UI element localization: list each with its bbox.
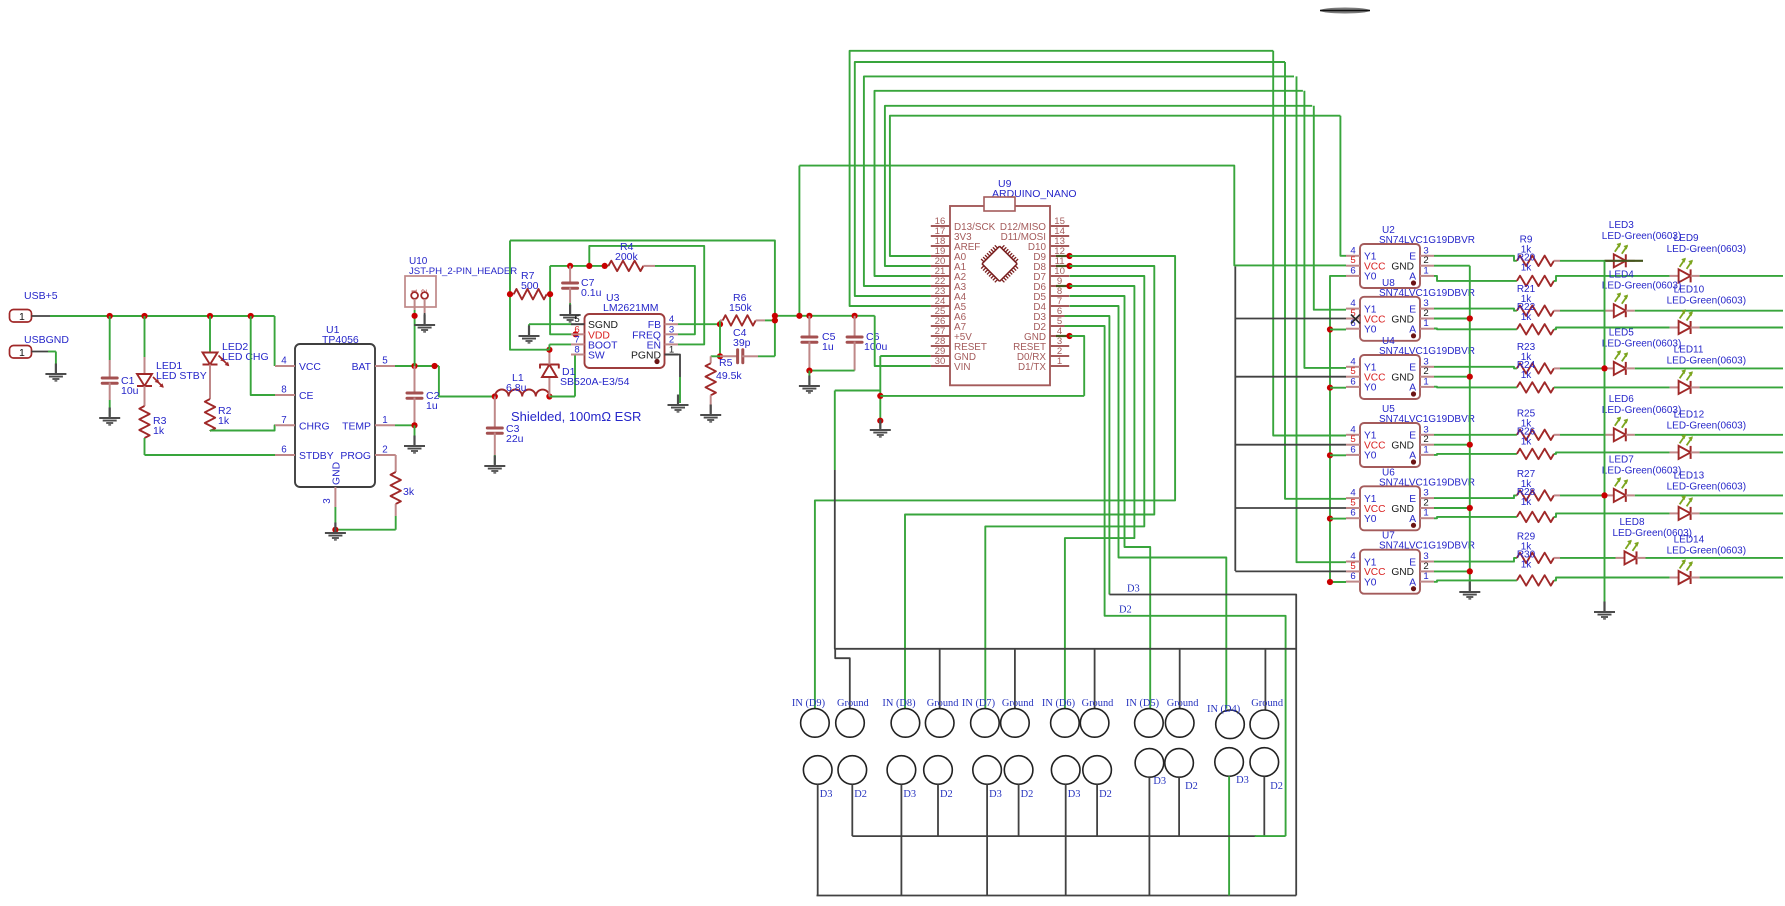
svg-text:IN (D4): IN (D4) bbox=[1207, 704, 1240, 715]
svg-text:7: 7 bbox=[281, 415, 286, 426]
wire black VCC branch y508 bbox=[1235, 507, 1346, 509]
connector IN (D8) pad bbox=[882, 698, 919, 737]
svg-text:3: 3 bbox=[322, 498, 333, 504]
svg-text:150k: 150k bbox=[729, 302, 753, 314]
decorative gray lens marker bbox=[1320, 8, 1370, 14]
wire BOOT pin bbox=[549, 344, 571, 349]
wire bus A0/D9 bbox=[890, 116, 1341, 256]
ground arduino GND bbox=[870, 420, 891, 438]
connector IN (D5) pad bbox=[1126, 698, 1163, 737]
wire LED rail bbox=[1601, 261, 1607, 609]
wire D2 bottom bus bbox=[852, 776, 1285, 836]
resistor R21 bbox=[1434, 284, 1605, 316]
wire PROG-3k to ground bbox=[332, 527, 395, 533]
svg-text:LED8: LED8 bbox=[1620, 517, 1645, 528]
svg-text:100u: 100u bbox=[864, 341, 888, 353]
svg-text:1: 1 bbox=[19, 347, 25, 359]
led LED6 LED-Green(0603) bbox=[1602, 394, 1783, 442]
wire bus A3/D6 bbox=[864, 76, 1294, 286]
wire net D9 bbox=[815, 253, 1175, 709]
connector D2 pad group 3 bbox=[1004, 756, 1033, 800]
svg-text:8: 8 bbox=[574, 345, 579, 356]
svg-text:500: 500 bbox=[521, 280, 539, 292]
wire ground stub right bbox=[1264, 649, 1266, 711]
led LED10 LED-Green(0603) bbox=[1667, 285, 1783, 335]
svg-text:Y0: Y0 bbox=[1364, 383, 1377, 394]
wire bus A2/D7 bbox=[875, 91, 1303, 276]
ic U3 LM2621MM bbox=[571, 292, 678, 368]
wire black VCC branch y571.4 bbox=[1235, 570, 1346, 572]
wire R3 to STDBY bbox=[145, 438, 276, 455]
wire VIN net bbox=[875, 316, 931, 366]
capacitor C4 bbox=[717, 327, 775, 363]
led LED7 LED-Green(0603) bbox=[1602, 454, 1783, 502]
wire TEMP net bbox=[395, 422, 418, 444]
node junction L1 left bbox=[492, 393, 498, 399]
svg-text:IN (D6): IN (D6) bbox=[1042, 698, 1075, 709]
resistor R27 bbox=[1434, 469, 1605, 501]
svg-text:D2: D2 bbox=[854, 789, 867, 800]
svg-text:4: 4 bbox=[281, 356, 287, 367]
svg-text:1k: 1k bbox=[1521, 559, 1533, 570]
svg-text:1: 1 bbox=[1423, 376, 1428, 387]
resistor R5 bbox=[706, 356, 743, 413]
node junction VDD pin bbox=[573, 331, 579, 337]
node junction LED2 bbox=[207, 313, 213, 319]
wire Y0 rail bbox=[1327, 276, 1346, 585]
svg-text:1: 1 bbox=[1423, 265, 1428, 276]
led LED14 LED-Green(0603) bbox=[1667, 535, 1783, 585]
svg-text:1k: 1k bbox=[1521, 497, 1533, 508]
connector D3 pad group 1 bbox=[803, 756, 832, 800]
wire net D3 bbox=[1065, 316, 1297, 896]
wire +5V distribution bbox=[799, 166, 1346, 266]
svg-text:IN (D8): IN (D8) bbox=[882, 698, 915, 709]
connector Ground pad group 5 bbox=[1165, 698, 1199, 737]
ground C1 bbox=[99, 408, 120, 426]
wire SGND net bbox=[529, 324, 571, 334]
ground LED rail bbox=[1594, 602, 1615, 620]
resistor R9 bbox=[1434, 234, 1605, 266]
svg-text:LED6: LED6 bbox=[1609, 394, 1634, 405]
svg-text:2: 2 bbox=[422, 289, 429, 293]
ground C7 bbox=[560, 305, 581, 323]
svg-text:6.8u: 6.8u bbox=[506, 382, 527, 394]
wire U7 GND to rail bbox=[1434, 568, 1473, 574]
connector D2 pad group 5 bbox=[1165, 749, 1198, 792]
svg-text:LED-Green(0603): LED-Green(0603) bbox=[1667, 420, 1746, 431]
wire VDD riser bbox=[550, 266, 576, 334]
wire GND branch left bbox=[835, 390, 881, 392]
svg-text:1: 1 bbox=[19, 311, 25, 323]
svg-text:USB+5: USB+5 bbox=[24, 290, 58, 302]
svg-text:3k: 3k bbox=[403, 486, 415, 498]
wire +5V riser bbox=[796, 166, 802, 319]
capacitor C1 bbox=[102, 316, 138, 416]
connector Ground pad group 2 bbox=[925, 698, 959, 737]
svg-text:1: 1 bbox=[1423, 571, 1428, 582]
wire U1 GND pin3 bbox=[334, 507, 336, 530]
wire U8 GND to rail bbox=[1434, 315, 1473, 321]
svg-text:1: 1 bbox=[1423, 318, 1428, 329]
wire U5 GND to rail bbox=[1434, 442, 1473, 448]
svg-text:D2: D2 bbox=[940, 789, 953, 800]
svg-text:LED5: LED5 bbox=[1609, 327, 1634, 338]
svg-text:BAT: BAT bbox=[352, 362, 372, 373]
wire U6 GND to rail bbox=[1434, 505, 1473, 511]
capacitor C2 bbox=[407, 366, 440, 425]
svg-text:2: 2 bbox=[382, 445, 387, 456]
svg-text:D3: D3 bbox=[1153, 776, 1166, 787]
connector IN (D9) pad bbox=[792, 698, 829, 737]
wire net D8 bbox=[905, 263, 1154, 709]
svg-text:IN (D5): IN (D5) bbox=[1126, 698, 1159, 709]
svg-text:Y0: Y0 bbox=[1364, 272, 1377, 283]
svg-text:CHRG: CHRG bbox=[299, 421, 330, 432]
wire L1 to SW bbox=[549, 355, 575, 397]
svg-text:LED CHG: LED CHG bbox=[222, 351, 269, 363]
svg-text:D3: D3 bbox=[820, 789, 833, 800]
svg-text:Ground: Ground bbox=[837, 698, 870, 709]
wire U4.Y0 tap bbox=[1327, 385, 1346, 391]
resistor R22 bbox=[1434, 302, 1670, 334]
ic U5 SN74LVC1G19DBVR bbox=[1346, 404, 1475, 467]
wire output node line bbox=[772, 313, 875, 319]
connector Ground pad group 3 bbox=[1001, 698, 1035, 737]
wire U4 GND to rail bbox=[1434, 374, 1473, 380]
svg-text:8: 8 bbox=[281, 385, 287, 396]
svg-text:LED12: LED12 bbox=[1674, 409, 1705, 420]
node junction CE bbox=[248, 313, 254, 319]
svg-text:SB520A-E3/54: SB520A-E3/54 bbox=[560, 376, 630, 388]
ground C2 bbox=[404, 436, 425, 454]
connector Ground pad group 6 bbox=[1250, 698, 1284, 739]
wire net to U5.Y1 bbox=[1273, 51, 1346, 436]
led LED3 LED-Green(0603) bbox=[1602, 220, 1681, 267]
svg-text:1: 1 bbox=[382, 415, 387, 426]
svg-text:LED-Green(0603): LED-Green(0603) bbox=[1667, 481, 1746, 492]
diode D1 SB520A-E3/54 bbox=[540, 350, 630, 397]
svg-text:D2: D2 bbox=[1119, 605, 1132, 616]
connector D2 pad group 6 bbox=[1250, 748, 1283, 792]
node junction L1 right bbox=[546, 393, 552, 399]
led LED9 LED-Green(0603) bbox=[1667, 233, 1783, 283]
svg-text:LED4: LED4 bbox=[1609, 270, 1634, 281]
wire chips GND rail bbox=[1469, 266, 1471, 590]
svg-text:TP4056: TP4056 bbox=[322, 334, 359, 346]
wire net D2 bbox=[1065, 326, 1286, 836]
svg-text:USBGND: USBGND bbox=[24, 334, 69, 346]
svg-text:LED10: LED10 bbox=[1674, 285, 1705, 296]
ic U8 SN74LVC1G19DBVR bbox=[1346, 278, 1475, 341]
svg-text:Y0: Y0 bbox=[1364, 451, 1377, 462]
led LED12 LED-Green(0603) bbox=[1667, 409, 1783, 459]
svg-text:GND: GND bbox=[332, 462, 343, 485]
connector IN (D7) pad bbox=[962, 698, 999, 737]
capacitor C7 bbox=[563, 266, 602, 313]
led LED13 LED-Green(0603) bbox=[1667, 470, 1783, 520]
svg-text:0.1u: 0.1u bbox=[581, 287, 602, 299]
svg-text:VIN: VIN bbox=[954, 362, 970, 373]
wire R4 to FREQ bbox=[655, 266, 695, 334]
wire GND bus bbox=[835, 391, 1296, 709]
capacitor C5 bbox=[802, 313, 836, 371]
ground U10 bbox=[414, 315, 435, 333]
resistor R20 bbox=[1434, 252, 1670, 286]
svg-text:22u: 22u bbox=[506, 433, 524, 445]
text shielded note bbox=[511, 409, 641, 424]
capacitor C6 bbox=[847, 313, 887, 371]
svg-text:LM2621MM: LM2621MM bbox=[603, 302, 658, 314]
svg-text:D2: D2 bbox=[1099, 789, 1112, 800]
wire output top line A bbox=[510, 241, 775, 357]
ground C5 bbox=[799, 376, 820, 394]
svg-text:1k: 1k bbox=[1521, 262, 1533, 273]
resistor R26 bbox=[1434, 426, 1670, 459]
svg-text:LED-Green(0603): LED-Green(0603) bbox=[1602, 338, 1681, 349]
svg-text:1: 1 bbox=[669, 345, 674, 356]
svg-text:6: 6 bbox=[1350, 444, 1355, 455]
svg-text:6: 6 bbox=[1350, 376, 1355, 387]
svg-text:D3: D3 bbox=[903, 789, 916, 800]
svg-text:6: 6 bbox=[1350, 265, 1355, 276]
resistor R25 bbox=[1434, 408, 1605, 440]
node junction GND-a bbox=[877, 393, 883, 399]
wire net D5 bbox=[1070, 296, 1151, 709]
svg-text:D2: D2 bbox=[1185, 781, 1198, 792]
svg-text:1k: 1k bbox=[153, 425, 165, 437]
resistor R24 bbox=[1434, 360, 1670, 393]
node junction GND-b bbox=[877, 418, 883, 424]
svg-text:Ground: Ground bbox=[1167, 698, 1200, 709]
wire ground stub x1014.9 bbox=[1014, 649, 1016, 709]
node junction BAT-C2 bbox=[411, 363, 417, 369]
wire net to U6.Y1 bbox=[1285, 62, 1346, 499]
svg-text:6: 6 bbox=[1350, 571, 1355, 582]
wire USB+5 rail bbox=[50, 316, 275, 366]
wire EN loop bbox=[589, 246, 704, 345]
svg-text:TEMP: TEMP bbox=[342, 421, 371, 432]
svg-text:1u: 1u bbox=[822, 341, 834, 353]
ic U9 ARDUINO_NANO bbox=[931, 178, 1077, 385]
svg-text:LED13: LED13 bbox=[1674, 470, 1705, 481]
connector Ground pad group 1 bbox=[836, 698, 870, 737]
wire net D7 bbox=[985, 276, 1144, 709]
svg-text:D3: D3 bbox=[989, 789, 1002, 800]
svg-text:STDBY: STDBY bbox=[299, 451, 334, 462]
svg-text:6: 6 bbox=[281, 445, 287, 456]
svg-text:10u: 10u bbox=[121, 385, 139, 397]
wire D3 bottom bus bbox=[817, 777, 1297, 895]
connector D3 pad group 4 bbox=[1051, 756, 1080, 800]
wire net to U4.Y1 bbox=[1304, 91, 1346, 368]
svg-text:CE: CE bbox=[299, 391, 314, 402]
connector IN (D4) pad bbox=[1207, 704, 1244, 739]
wire BAT net bbox=[395, 366, 495, 397]
svg-text:LED11: LED11 bbox=[1674, 344, 1704, 355]
ic U7 SN74LVC1G19DBVR bbox=[1346, 531, 1475, 594]
wire ground stub x939.7 bbox=[939, 649, 941, 709]
wire VDD top line bbox=[550, 265, 608, 267]
svg-text:IN (D7): IN (D7) bbox=[962, 698, 995, 709]
connector D3 pad group 2 bbox=[887, 756, 916, 800]
resistor R7 bbox=[507, 270, 553, 299]
svg-text:D2: D2 bbox=[1270, 781, 1283, 792]
wire net to U2.Y1 bbox=[1340, 116, 1346, 256]
ground PGND bbox=[668, 395, 689, 413]
svg-text:LED STBY: LED STBY bbox=[156, 370, 207, 382]
wire black VCC branch y444.7 bbox=[1235, 444, 1346, 446]
led LED1 bbox=[137, 316, 207, 388]
ground chips rail bbox=[1459, 582, 1480, 600]
node junction R4 left bbox=[602, 263, 608, 269]
wire ground stub x1179.7 bbox=[1179, 649, 1181, 709]
resistor R4 bbox=[608, 241, 655, 271]
svg-text:1k: 1k bbox=[1521, 436, 1533, 447]
svg-text:D3: D3 bbox=[1236, 775, 1249, 786]
wire U5.Y0 tap bbox=[1327, 452, 1346, 458]
svg-text:Ground: Ground bbox=[1002, 698, 1035, 709]
connector D3 pad group 6 bbox=[1215, 748, 1249, 786]
connector D2 pad group 2 bbox=[924, 756, 953, 800]
svg-text:LED-Green(0603): LED-Green(0603) bbox=[1602, 405, 1681, 416]
node USB+5 label bbox=[24, 290, 58, 302]
wire bus A1/D8 bbox=[885, 106, 1312, 266]
resistor 3k bbox=[391, 455, 415, 530]
svg-text:LED-Green(0603): LED-Green(0603) bbox=[1667, 296, 1746, 307]
svg-text:39p: 39p bbox=[733, 337, 751, 349]
svg-text:D3: D3 bbox=[1068, 789, 1081, 800]
svg-text:LED3: LED3 bbox=[1609, 220, 1634, 231]
svg-text:1: 1 bbox=[412, 289, 419, 293]
svg-text:LED9: LED9 bbox=[1674, 233, 1699, 244]
led LED4 LED-Green(0603) bbox=[1602, 270, 1783, 318]
connector IN (D6) pad bbox=[1042, 698, 1079, 737]
wire ground stub x1094.6 bbox=[1094, 649, 1096, 709]
wire bus A4/D5 bbox=[855, 62, 1285, 296]
wire D3 green riser bbox=[1228, 776, 1230, 895]
svg-text:D1/TX: D1/TX bbox=[1018, 362, 1046, 373]
wire U6.Y0 tap bbox=[1327, 516, 1346, 522]
wire U8.Y0 tap bbox=[1327, 326, 1346, 332]
svg-text:Ground: Ground bbox=[1251, 698, 1284, 709]
node junction EN-VDD bbox=[586, 263, 592, 269]
wire JST pin2 to ground bbox=[424, 313, 426, 323]
svg-text:D3: D3 bbox=[1127, 584, 1140, 595]
led LED2 bbox=[203, 316, 269, 366]
svg-text:49.5k: 49.5k bbox=[716, 370, 742, 382]
resistor R29 bbox=[1434, 531, 1616, 563]
resistor R30 bbox=[1434, 549, 1670, 585]
connector USBGND pin 1 bbox=[10, 346, 49, 360]
wire GND from D-GND pin bbox=[880, 395, 1084, 397]
svg-text:1u: 1u bbox=[426, 400, 438, 412]
svg-text:LED-Green(0603): LED-Green(0603) bbox=[1667, 355, 1746, 366]
ic U2 SN74LVC1G19DBVR bbox=[1346, 225, 1475, 288]
svg-text:Ground: Ground bbox=[927, 698, 960, 709]
resistor R3 bbox=[139, 386, 166, 438]
wire GND29 net bbox=[880, 356, 931, 428]
ground R5 bbox=[700, 405, 721, 423]
wire CE net bbox=[251, 316, 275, 395]
svg-text:IN (D9): IN (D9) bbox=[792, 698, 825, 709]
connector D2 pad group 4 bbox=[1083, 756, 1112, 800]
wire black rail bbox=[1234, 267, 1236, 572]
wire BOOT loop bbox=[510, 241, 549, 350]
wire C5-C6 bottom bbox=[806, 368, 854, 385]
svg-text:1k: 1k bbox=[1521, 312, 1533, 323]
wire net D6 bbox=[1056, 283, 1134, 709]
wire R2 to CHRG bbox=[210, 425, 275, 431]
wire net to U7.Y1 bbox=[1297, 76, 1347, 562]
capacitor C3 bbox=[487, 397, 523, 465]
svg-text:D2: D2 bbox=[1021, 789, 1034, 800]
svg-text:1k: 1k bbox=[218, 415, 230, 427]
led LED8 LED-Green(0603) bbox=[1613, 517, 1784, 565]
svg-text:1: 1 bbox=[1423, 444, 1428, 455]
ic U4 SN74LVC1G19DBVR bbox=[1346, 336, 1475, 399]
resistor R23 bbox=[1434, 342, 1605, 374]
svg-text:VCC: VCC bbox=[299, 362, 321, 373]
svg-text:5: 5 bbox=[382, 356, 388, 367]
wire arduino GND pin bbox=[1056, 333, 1084, 396]
wire bus A5/D4 bbox=[850, 51, 1274, 306]
svg-text:Y0: Y0 bbox=[1364, 325, 1377, 336]
resistor R6 bbox=[720, 292, 778, 326]
ground C3 bbox=[484, 456, 505, 474]
led LED11 LED-Green(0603) bbox=[1667, 344, 1783, 394]
svg-text:200k: 200k bbox=[615, 251, 639, 263]
wire U2 GND to rail bbox=[1434, 265, 1470, 267]
wire PGND to ground bbox=[678, 355, 680, 404]
svg-text:30: 30 bbox=[935, 356, 946, 367]
svg-text:LED-Green(0603): LED-Green(0603) bbox=[1602, 231, 1681, 242]
svg-text:Shielded, 100mΩ ESR: Shielded, 100mΩ ESR bbox=[511, 409, 641, 424]
svg-text:1: 1 bbox=[1423, 508, 1428, 519]
node junction LED1 bbox=[141, 313, 147, 319]
wire net to U8.Y1 bbox=[1314, 106, 1346, 310]
wire black VCC branch y318.5 bbox=[1235, 318, 1346, 320]
ground U1 bbox=[325, 523, 346, 541]
ic U6 SN74LVC1G19DBVR bbox=[1346, 467, 1475, 530]
node junction C1 bbox=[107, 313, 113, 319]
svg-text:LED-Green(0603): LED-Green(0603) bbox=[1667, 546, 1746, 557]
wire net D4 bbox=[1070, 306, 1227, 709]
inductor L1 bbox=[495, 372, 549, 397]
wire black VCC branch y376.7 bbox=[1235, 376, 1346, 378]
svg-text:Y0: Y0 bbox=[1364, 514, 1377, 525]
svg-text:1: 1 bbox=[1057, 356, 1062, 367]
svg-text:Ground: Ground bbox=[1082, 698, 1115, 709]
wire USBGND to ground bbox=[48, 352, 56, 373]
node junction BAT-turn bbox=[432, 363, 438, 369]
svg-text:R5: R5 bbox=[719, 357, 733, 369]
node no-connect marker U8 VCC bbox=[1351, 315, 1360, 324]
led LED5 LED-Green(0603) bbox=[1602, 327, 1783, 375]
ground SGND bbox=[519, 326, 540, 344]
svg-text:Y0: Y0 bbox=[1364, 577, 1377, 588]
svg-text:1k: 1k bbox=[1521, 370, 1533, 381]
connector D3 pad group 3 bbox=[973, 756, 1002, 800]
connector Ground pad group 4 bbox=[1080, 698, 1114, 737]
svg-text:LED-Green(0603): LED-Green(0603) bbox=[1667, 244, 1746, 255]
svg-text:6: 6 bbox=[1350, 508, 1355, 519]
connector D3 pad group 5 bbox=[1135, 749, 1166, 787]
resistor R28 bbox=[1434, 487, 1670, 522]
ic U1 TP4056 bbox=[275, 324, 395, 507]
node USBGND label bbox=[24, 334, 69, 346]
connector U10 JST-PH_2-PIN_HEADER bbox=[405, 256, 517, 313]
